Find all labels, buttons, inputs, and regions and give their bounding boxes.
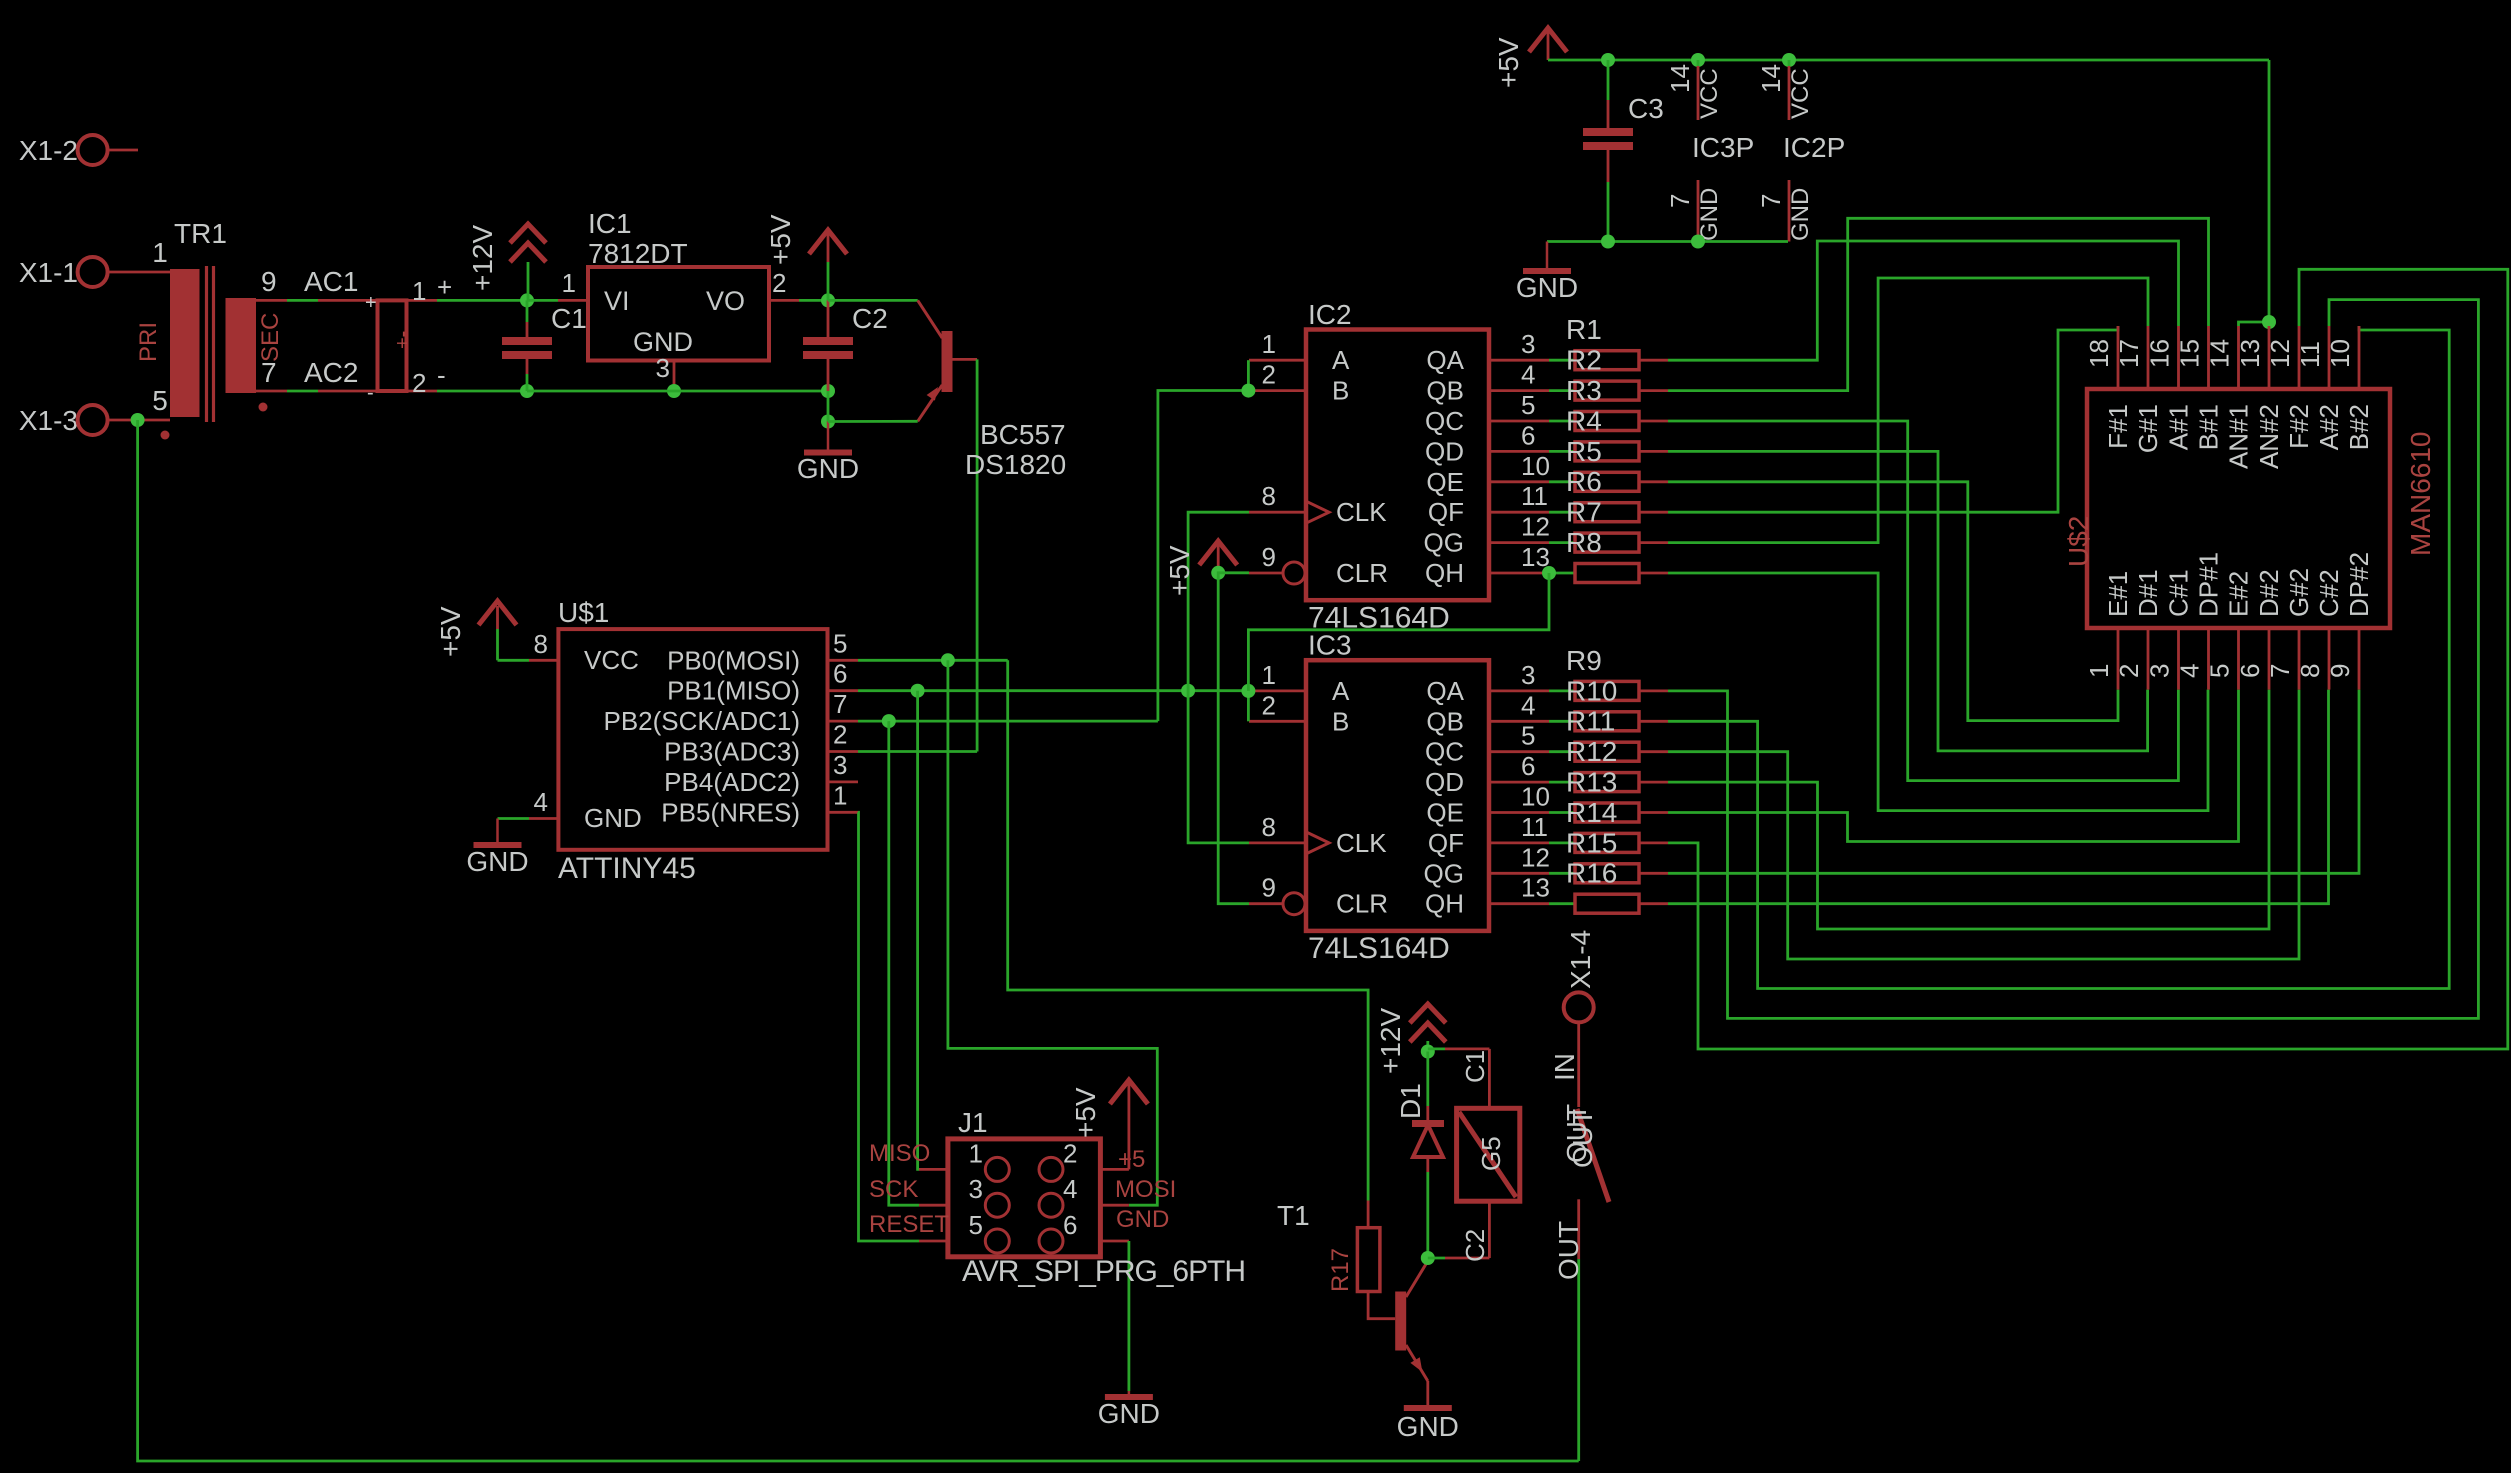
svg-text:3: 3 — [969, 1174, 983, 1204]
svg-text:3: 3 — [2145, 664, 2175, 678]
svg-text:IC2P: IC2P — [1783, 132, 1845, 163]
svg-text:9: 9 — [1262, 542, 1276, 572]
svg-text:7: 7 — [1665, 194, 1695, 208]
svg-text:1: 1 — [152, 237, 168, 268]
svg-text:11: 11 — [2295, 341, 2325, 368]
svg-text:R6: R6 — [1566, 466, 1602, 497]
svg-text:12: 12 — [1521, 842, 1550, 872]
svg-text:AC2: AC2 — [304, 357, 358, 388]
svg-text:R14: R14 — [1566, 797, 1617, 828]
svg-text:R15: R15 — [1566, 827, 1617, 858]
svg-text:R7: R7 — [1566, 497, 1602, 528]
svg-text:X1-3: X1-3 — [19, 405, 78, 436]
svg-text:8: 8 — [534, 629, 548, 659]
svg-text:2: 2 — [412, 368, 426, 398]
svg-text:+5V: +5V — [765, 214, 796, 265]
svg-text:1: 1 — [2084, 664, 2114, 678]
svg-text:+12V: +12V — [467, 225, 498, 291]
svg-text:GND: GND — [584, 803, 642, 833]
svg-text:5: 5 — [152, 385, 168, 416]
svg-text:MAN6610: MAN6610 — [2405, 431, 2436, 556]
svg-text:E#1: E#1 — [2103, 571, 2133, 617]
svg-text:15: 15 — [2175, 339, 2205, 368]
svg-text:PB0(MOSI): PB0(MOSI) — [667, 645, 800, 675]
svg-text:QF: QF — [1428, 828, 1464, 858]
svg-text:T1: T1 — [1277, 1200, 1310, 1231]
svg-text:QG: QG — [1424, 528, 1464, 558]
svg-text:QA: QA — [1426, 676, 1464, 706]
svg-text:2: 2 — [2114, 664, 2144, 678]
svg-text:MISO: MISO — [869, 1140, 930, 1167]
svg-text:C3: C3 — [1628, 93, 1664, 124]
svg-text:1: 1 — [969, 1138, 983, 1168]
svg-text:D#1: D#1 — [2133, 569, 2163, 617]
svg-text:3: 3 — [1521, 329, 1535, 359]
svg-text:6: 6 — [2235, 664, 2265, 678]
svg-text:5: 5 — [1521, 390, 1535, 420]
svg-text:R12: R12 — [1566, 736, 1617, 767]
svg-text:QH: QH — [1425, 889, 1464, 919]
svg-text:12: 12 — [1521, 512, 1550, 542]
svg-text:R17: R17 — [1327, 1248, 1354, 1292]
svg-text:R5: R5 — [1566, 436, 1602, 467]
svg-text:SCK: SCK — [869, 1176, 918, 1203]
svg-text:OUT: OUT — [1561, 1104, 1592, 1163]
svg-text:QG: QG — [1424, 858, 1464, 888]
svg-text:+5: +5 — [1118, 1146, 1145, 1173]
svg-text:C2: C2 — [852, 303, 888, 334]
svg-text:A: A — [1332, 345, 1350, 375]
svg-text:8: 8 — [1262, 481, 1276, 511]
svg-text:2: 2 — [1063, 1138, 1077, 1168]
svg-text:J1: J1 — [958, 1107, 988, 1138]
svg-text:R13: R13 — [1566, 767, 1617, 798]
svg-text:C1: C1 — [1460, 1050, 1490, 1083]
svg-text:GND: GND — [797, 453, 859, 484]
svg-text:9: 9 — [261, 266, 277, 297]
svg-text:6: 6 — [1063, 1210, 1077, 1240]
svg-text:X1-4: X1-4 — [1565, 930, 1596, 989]
svg-text:IC2: IC2 — [1308, 299, 1352, 330]
svg-text:13: 13 — [1521, 873, 1550, 903]
svg-text:IC3: IC3 — [1308, 630, 1352, 661]
svg-text:CLR: CLR — [1336, 889, 1388, 919]
svg-text:A#2: A#2 — [2314, 404, 2344, 450]
svg-text:VO: VO — [706, 286, 745, 316]
svg-text:QE: QE — [1426, 798, 1464, 828]
svg-text:16: 16 — [2145, 339, 2175, 368]
svg-text:+5V: +5V — [1493, 37, 1524, 88]
svg-text:MOSI: MOSI — [1115, 1176, 1176, 1203]
svg-text:11: 11 — [1521, 481, 1548, 511]
svg-text:12: 12 — [2265, 339, 2295, 368]
svg-text:R8: R8 — [1566, 527, 1602, 558]
svg-text:E#2: E#2 — [2224, 571, 2254, 617]
svg-text:G#2: G#2 — [2284, 568, 2314, 617]
svg-text:1: 1 — [562, 268, 576, 298]
svg-text:B: B — [1332, 376, 1349, 406]
svg-text:R4: R4 — [1566, 405, 1602, 436]
svg-text:R16: R16 — [1566, 858, 1617, 889]
svg-text:D#2: D#2 — [2254, 569, 2284, 617]
svg-text:R3: R3 — [1566, 375, 1602, 406]
svg-text:+5V: +5V — [435, 606, 466, 657]
svg-text:R1: R1 — [1566, 314, 1602, 345]
svg-text:5: 5 — [2205, 664, 2235, 678]
svg-text:4: 4 — [1521, 690, 1535, 720]
svg-text:QC: QC — [1425, 406, 1464, 436]
svg-text:17: 17 — [2114, 339, 2144, 368]
svg-text:AN#2: AN#2 — [2254, 404, 2284, 469]
svg-text:R10: R10 — [1566, 675, 1617, 706]
svg-text:+: + — [365, 292, 377, 314]
svg-text:QB: QB — [1426, 376, 1464, 406]
svg-text:F#1: F#1 — [2103, 404, 2133, 449]
svg-text:6: 6 — [833, 659, 847, 689]
svg-text:GND: GND — [1696, 188, 1723, 241]
svg-text:10: 10 — [1521, 451, 1550, 481]
svg-text:BC557: BC557 — [980, 419, 1066, 450]
svg-text:1: 1 — [833, 780, 847, 810]
svg-text:C#1: C#1 — [2164, 569, 2194, 617]
svg-text:QF: QF — [1428, 497, 1464, 527]
svg-text:A: A — [1332, 676, 1350, 706]
svg-text:DP#2: DP#2 — [2344, 552, 2374, 617]
svg-text:QB: QB — [1426, 706, 1464, 736]
svg-text:QD: QD — [1425, 436, 1464, 466]
svg-text:SEC: SEC — [257, 313, 284, 362]
svg-text:B#2: B#2 — [2344, 404, 2374, 450]
svg-text:-: - — [437, 360, 446, 390]
svg-text:7: 7 — [833, 689, 847, 719]
svg-text:8: 8 — [2295, 664, 2325, 678]
svg-text:74LS164D: 74LS164D — [1308, 932, 1450, 965]
svg-text:RESET: RESET — [869, 1211, 949, 1238]
svg-text:2: 2 — [772, 268, 786, 298]
svg-text:4: 4 — [1521, 360, 1535, 390]
svg-text:GND: GND — [1787, 188, 1814, 241]
svg-text:1: 1 — [412, 276, 426, 306]
svg-text:14: 14 — [2205, 339, 2235, 368]
svg-text:X1-2: X1-2 — [19, 135, 78, 166]
svg-text:2: 2 — [1262, 360, 1276, 390]
svg-text:R9: R9 — [1566, 645, 1602, 676]
svg-text:VI: VI — [604, 286, 630, 316]
svg-text:A#1: A#1 — [2164, 404, 2194, 450]
svg-text:+: + — [437, 272, 452, 302]
svg-text:9: 9 — [1262, 873, 1276, 903]
svg-text:3: 3 — [1521, 660, 1535, 690]
svg-text:2: 2 — [833, 720, 847, 750]
svg-text:10: 10 — [1521, 782, 1550, 812]
svg-text:D1: D1 — [1395, 1083, 1426, 1119]
svg-text:1: 1 — [1262, 329, 1276, 359]
svg-text:G#1: G#1 — [2133, 404, 2163, 453]
svg-text:B: B — [1332, 706, 1349, 736]
svg-text:B#1: B#1 — [2194, 404, 2224, 450]
svg-text:9: 9 — [2325, 664, 2355, 678]
svg-text:3: 3 — [833, 750, 847, 780]
svg-text:VCC: VCC — [1787, 68, 1814, 119]
svg-text:-: - — [367, 382, 374, 404]
svg-text:8: 8 — [1262, 812, 1276, 842]
svg-text:GND: GND — [1116, 1206, 1169, 1233]
svg-text:PB1(MISO): PB1(MISO) — [667, 676, 800, 706]
svg-text:IN: IN — [1549, 1053, 1580, 1081]
svg-text:TR1: TR1 — [174, 218, 227, 249]
svg-text:11: 11 — [1521, 812, 1548, 842]
svg-text:QH: QH — [1425, 558, 1464, 588]
svg-text:AN#1: AN#1 — [2224, 404, 2254, 469]
svg-text:PB2(SCK/ADC1): PB2(SCK/ADC1) — [604, 706, 801, 736]
svg-text:2: 2 — [1262, 690, 1276, 720]
svg-text:R11: R11 — [1566, 706, 1615, 737]
svg-text:14: 14 — [1756, 64, 1786, 93]
svg-text:AVR_SPI_PRG_6PTH: AVR_SPI_PRG_6PTH — [962, 1255, 1246, 1288]
svg-text:QA: QA — [1426, 345, 1464, 375]
svg-text:5: 5 — [833, 628, 847, 658]
svg-text:U$2: U$2 — [2063, 516, 2094, 567]
svg-text:X1-1: X1-1 — [19, 257, 78, 288]
svg-text:VCC: VCC — [1696, 68, 1723, 119]
svg-text:DS1820: DS1820 — [965, 449, 1066, 480]
svg-text:18: 18 — [2084, 339, 2114, 368]
svg-text:CLK: CLK — [1336, 497, 1387, 527]
svg-text:CLK: CLK — [1336, 828, 1387, 858]
svg-text:3: 3 — [656, 353, 670, 383]
svg-text:GND: GND — [1397, 1411, 1459, 1442]
svg-text:7812DT: 7812DT — [588, 238, 688, 269]
svg-text:IC1: IC1 — [588, 208, 632, 239]
svg-text:7: 7 — [1756, 194, 1786, 208]
svg-text:4: 4 — [534, 787, 548, 817]
svg-text:ATTINY45: ATTINY45 — [558, 852, 696, 885]
svg-text:R2: R2 — [1566, 345, 1602, 376]
svg-text:5: 5 — [1521, 721, 1535, 751]
svg-text:QD: QD — [1425, 767, 1464, 797]
svg-text:PB4(ADC2): PB4(ADC2) — [664, 767, 800, 797]
svg-text:G5: G5 — [1476, 1136, 1506, 1171]
svg-text:+12V: +12V — [1375, 1008, 1406, 1074]
svg-text:14: 14 — [1665, 64, 1695, 93]
svg-text:4: 4 — [1063, 1174, 1077, 1204]
svg-text:PRI: PRI — [135, 322, 162, 362]
svg-text:C1: C1 — [551, 303, 587, 334]
svg-text:C#2: C#2 — [2314, 569, 2344, 617]
svg-text:1: 1 — [1262, 660, 1276, 690]
svg-text:IC3P: IC3P — [1692, 132, 1754, 163]
svg-text:PB3(ADC3): PB3(ADC3) — [664, 737, 800, 767]
svg-text:F#2: F#2 — [2284, 404, 2314, 449]
svg-text:10: 10 — [2325, 339, 2355, 368]
svg-text:+-: +- — [392, 331, 414, 349]
svg-text:+5V: +5V — [1164, 545, 1195, 596]
svg-text:QE: QE — [1426, 467, 1464, 497]
svg-text:GND: GND — [1098, 1398, 1160, 1429]
svg-text:+5V: +5V — [1070, 1087, 1101, 1138]
svg-text:GND: GND — [1516, 272, 1578, 303]
svg-text:VCC: VCC — [584, 645, 639, 675]
svg-text:QC: QC — [1425, 737, 1464, 767]
svg-text:CLR: CLR — [1336, 558, 1388, 588]
svg-text:OUT: OUT — [1553, 1221, 1584, 1280]
svg-text:6: 6 — [1521, 420, 1535, 450]
svg-text:6: 6 — [1521, 751, 1535, 781]
svg-text:DP#1: DP#1 — [2194, 552, 2224, 617]
svg-text:PB5(NRES): PB5(NRES) — [661, 797, 800, 827]
svg-text:C2: C2 — [1460, 1229, 1490, 1262]
svg-text:4: 4 — [2175, 664, 2205, 678]
svg-text:AC1: AC1 — [304, 266, 358, 297]
svg-text:13: 13 — [2235, 339, 2265, 368]
svg-text:GND: GND — [466, 846, 528, 877]
svg-text:U$1: U$1 — [558, 597, 609, 628]
svg-text:7: 7 — [2265, 664, 2295, 678]
svg-text:5: 5 — [969, 1210, 983, 1240]
